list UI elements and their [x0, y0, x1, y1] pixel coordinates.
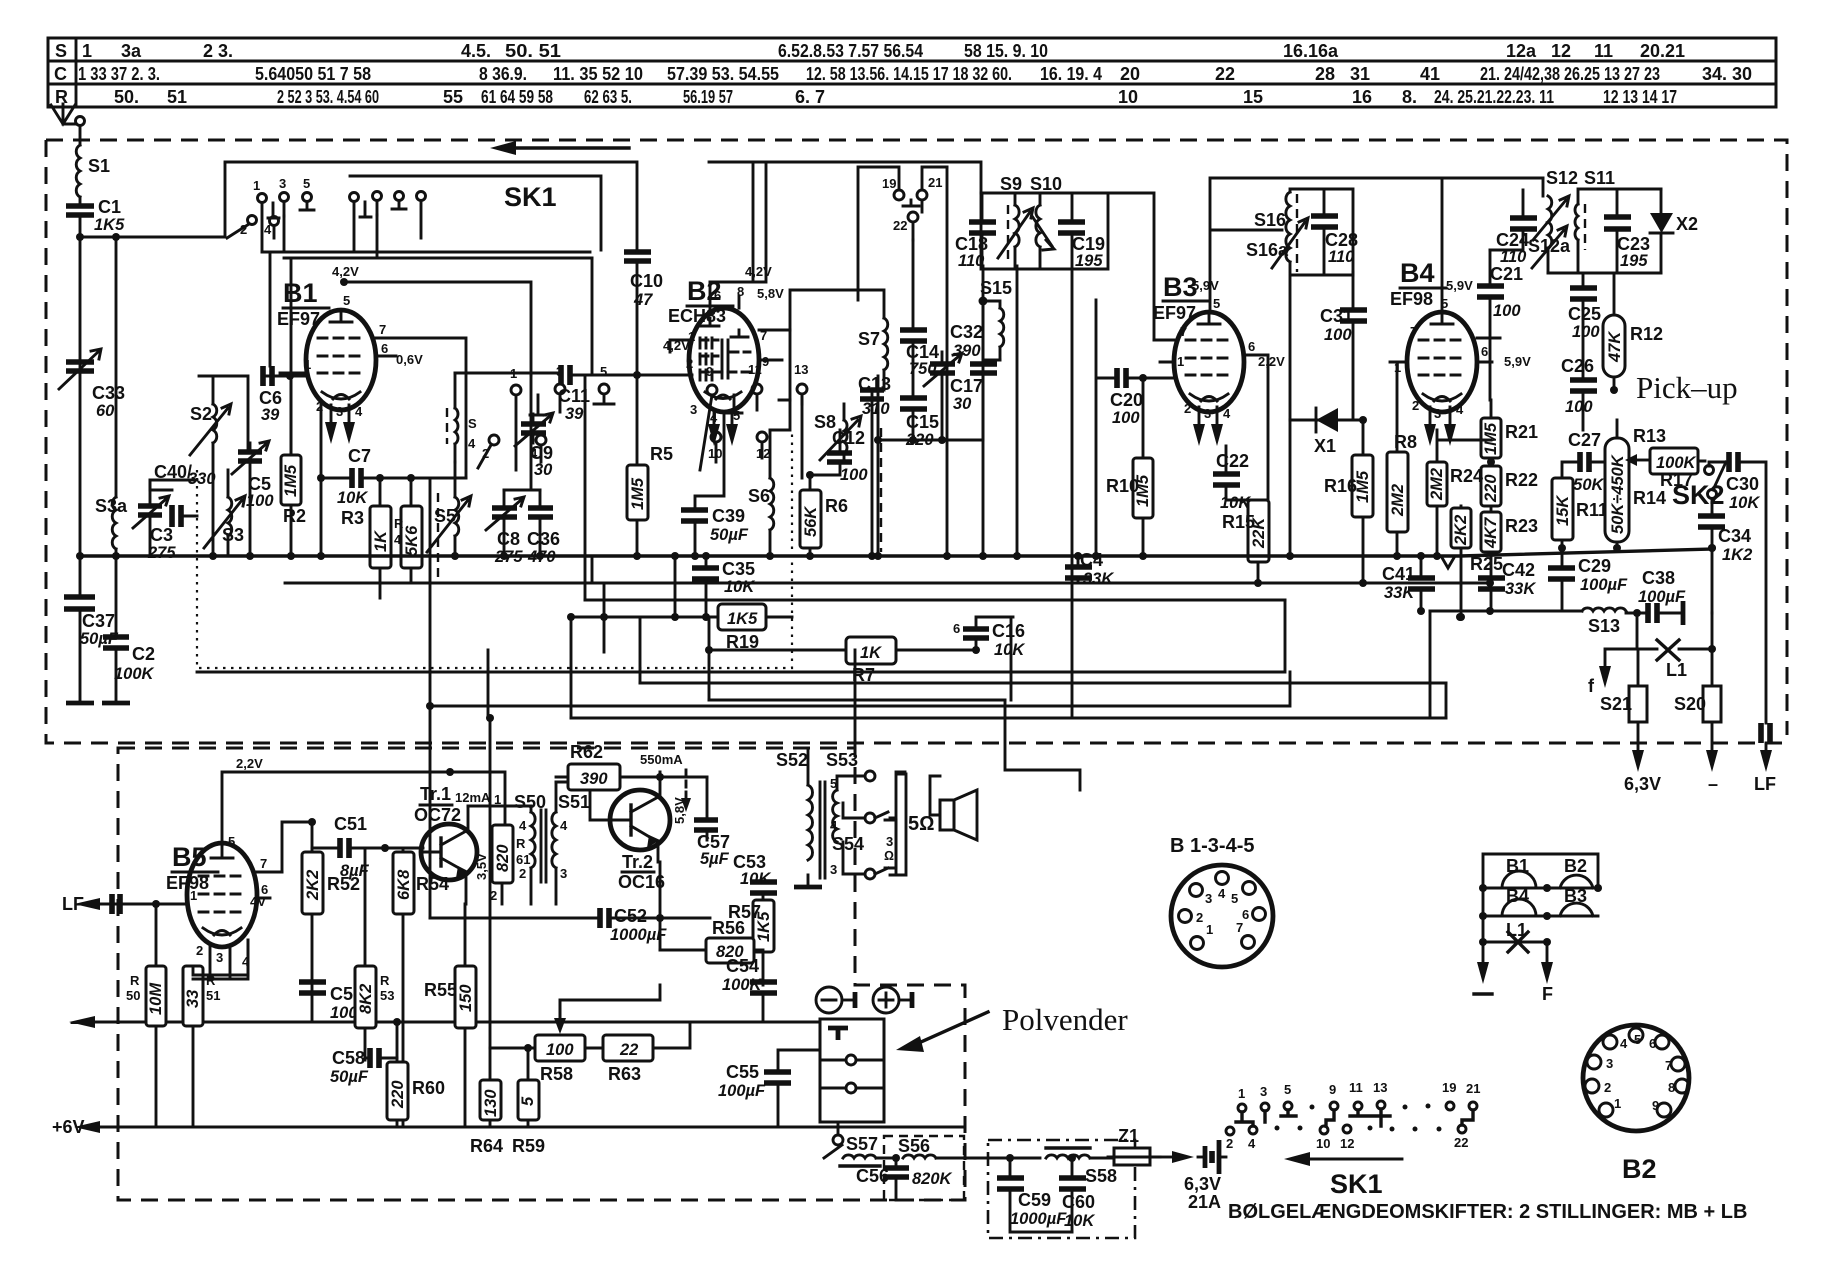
wire B2 top [710, 163, 766, 282]
dashed coil core line S8 [880, 428, 882, 552]
LF section dashed border [118, 748, 965, 1200]
coil S16 S16a [1246, 189, 1353, 420]
ground [66, 701, 94, 706]
svg-text:C4: C4 [1080, 550, 1103, 570]
capacitor C41 [1382, 564, 1435, 602]
svg-text:2M2: 2M2 [1389, 484, 1407, 517]
coil S2 variable [190, 404, 231, 556]
battery cell plus [873, 987, 912, 1013]
svg-text:C: C [54, 64, 67, 84]
svg-text:X1: X1 [1314, 436, 1336, 456]
svg-text:C29: C29 [1578, 556, 1611, 576]
resistor R7 1K [846, 637, 896, 685]
wire B1 anode riser [402, 338, 466, 478]
svg-text:20.21: 20.21 [1640, 41, 1685, 61]
resistor R59 5 [512, 1080, 545, 1156]
svg-text:R22: R22 [1505, 470, 1538, 490]
svg-text:B4: B4 [1506, 886, 1529, 906]
wire [115, 237, 118, 497]
svg-text:Ω: Ω [884, 848, 894, 863]
svg-text:56K: 56K [802, 506, 820, 537]
svg-text:2: 2 [686, 356, 693, 371]
svg-text:C38: C38 [1642, 568, 1675, 588]
svg-text:B2: B2 [1622, 1154, 1657, 1184]
svg-text:2K2: 2K2 [304, 870, 322, 901]
svg-text:C15: C15 [906, 412, 939, 432]
svg-text:10K: 10K [724, 578, 755, 596]
svg-text:5µF: 5µF [700, 850, 730, 868]
capacitor C55 [718, 1062, 791, 1100]
resistor R24 2M2 [1427, 462, 1483, 506]
capacitor C8 variable [486, 497, 524, 566]
svg-text:100: 100 [1493, 302, 1521, 320]
wiper arrow R14 [1637, 459, 1650, 462]
wire local bus [878, 376, 983, 556]
svg-text:9: 9 [762, 354, 769, 369]
svg-text:R62: R62 [570, 742, 603, 762]
svg-text:10K: 10K [337, 489, 368, 507]
svg-text:47K: 47K [1606, 331, 1624, 363]
capacitor C7 [337, 446, 371, 507]
f terminal arrow [1605, 649, 1637, 666]
svg-text:7: 7 [379, 322, 386, 337]
svg-text:C57: C57 [697, 832, 730, 852]
svg-text:f: f [1588, 676, 1595, 696]
svg-text:5: 5 [343, 293, 350, 308]
svg-text:6,3V: 6,3V [1624, 774, 1661, 794]
svg-text:C56: C56 [856, 1166, 889, 1186]
svg-text:4,2V: 4,2V [745, 264, 772, 279]
resistor R8 2M2 [1387, 432, 1417, 532]
svg-text:50µF: 50µF [330, 1068, 369, 1086]
capacitor C56 [856, 1166, 909, 1186]
svg-text:S8: S8 [814, 412, 836, 432]
inductor L1 ferrite [1657, 640, 1687, 680]
svg-text:22: 22 [1454, 1135, 1468, 1150]
svg-text:2,2V: 2,2V [1258, 354, 1285, 369]
svg-text:2: 2 [1412, 398, 1419, 413]
svg-text:11. 35 52 10: 11. 35 52 10 [553, 64, 643, 84]
svg-text:S13: S13 [1588, 616, 1620, 636]
svg-text:550mA: 550mA [640, 752, 683, 767]
coil S6 [748, 430, 774, 556]
coil S8 variable [814, 412, 861, 460]
capacitor C30 [1726, 452, 1760, 512]
capacitor C2 [103, 637, 155, 683]
svg-text:3: 3 [1204, 406, 1211, 421]
svg-text:8.: 8. [1402, 87, 1417, 107]
svg-text:100: 100 [840, 466, 868, 484]
svg-text:2: 2 [1196, 910, 1203, 925]
svg-text:30: 30 [953, 395, 972, 413]
filament wiring diagram [1474, 854, 1602, 1004]
tube B5 EF98 [160, 834, 282, 975]
svg-text:S21: S21 [1600, 694, 1632, 714]
svg-text:C23: C23 [1617, 234, 1650, 254]
svg-text:S3a: S3a [95, 496, 128, 516]
resistor R50 10M [126, 966, 166, 1026]
svg-text:8K2: 8K2 [357, 984, 375, 1014]
capacitor C38 [1638, 568, 1686, 625]
svg-text:S3: S3 [222, 525, 244, 545]
wire [115, 556, 118, 701]
resistor R57 1K5 [728, 900, 774, 952]
svg-text:50K÷450K: 50K÷450K [1609, 454, 1627, 534]
svg-text:22: 22 [893, 218, 907, 233]
svg-text:S51: S51 [558, 792, 590, 812]
svg-text:50: 50 [126, 988, 140, 1003]
svg-text:820: 820 [494, 844, 512, 872]
svg-text:6,3V: 6,3V [1184, 1174, 1221, 1194]
resistor R19 1K5 [718, 604, 766, 652]
svg-text:+6V: +6V [52, 1117, 85, 1137]
svg-text:C3: C3 [150, 525, 173, 545]
svg-text:21A: 21A [1188, 1192, 1221, 1212]
svg-text:5: 5 [1284, 1082, 1291, 1097]
svg-text:S11: S11 [1584, 168, 1615, 188]
svg-text:B3: B3 [1564, 886, 1587, 906]
svg-text:B 1-3-4-5: B 1-3-4-5 [1170, 835, 1254, 857]
svg-text:2: 2 [1226, 1136, 1233, 1151]
resistor R2 1M5 [281, 455, 306, 526]
direction arrow [516, 146, 629, 149]
capacitor C36 [527, 508, 560, 566]
coupling cap on LF line [112, 894, 120, 914]
resistor R56 820 [706, 918, 754, 963]
svg-text:C33: C33 [92, 383, 125, 403]
svg-text:5,8V: 5,8V [757, 286, 784, 301]
svg-text:4: 4 [1248, 1136, 1256, 1151]
svg-text:34. 30: 34. 30 [1702, 64, 1752, 84]
svg-text:R16: R16 [1324, 476, 1357, 496]
svg-text:S53: S53 [826, 750, 858, 770]
svg-text:C26: C26 [1561, 356, 1594, 376]
potentiometer R58 100 [535, 1035, 585, 1084]
table row C numbers [78, 64, 1752, 84]
capacitor C14 [900, 330, 939, 378]
svg-text:39: 39 [261, 406, 280, 424]
wire [79, 197, 82, 203]
capacitor C51 [334, 814, 370, 880]
svg-text:7: 7 [1236, 920, 1243, 935]
svg-text:R13: R13 [1633, 426, 1666, 446]
resistor R3 1K [341, 506, 391, 568]
svg-text:F: F [1542, 984, 1553, 1004]
svg-text:1: 1 [190, 888, 197, 903]
svg-text:5.64050 51 7 58: 5.64050 51 7 58 [255, 64, 371, 84]
svg-text:SK2: SK2 [1672, 480, 1725, 510]
dashed coil core line S5 [437, 493, 439, 582]
svg-text:S: S [55, 41, 67, 61]
ground [102, 701, 130, 706]
svg-text:R23: R23 [1505, 516, 1538, 536]
svg-text:C41: C41 [1382, 564, 1415, 584]
loudspeaker [940, 790, 977, 840]
svg-text:SK1: SK1 [1330, 1169, 1383, 1199]
svg-text:60: 60 [96, 402, 115, 420]
svg-text:820K: 820K [912, 1170, 953, 1188]
svg-text:C55: C55 [726, 1062, 759, 1082]
capacitor C50 [299, 982, 378, 1022]
svg-text:100: 100 [1324, 326, 1352, 344]
capacitor C23 [1604, 217, 1650, 270]
resistor R64 130 [470, 1080, 503, 1156]
svg-text:C2: C2 [132, 644, 155, 664]
svg-text:1M5: 1M5 [1482, 422, 1500, 455]
SK1 contact strip [1226, 1080, 1480, 1199]
coil S57 [840, 1134, 880, 1166]
svg-text:4: 4 [394, 532, 402, 547]
svg-text:6: 6 [1481, 344, 1488, 359]
svg-text:8: 8 [1668, 1080, 1675, 1095]
svg-text:R11: R11 [1576, 500, 1608, 520]
svg-text:1M5: 1M5 [282, 464, 300, 497]
svg-text:56.19 57: 56.19 57 [683, 87, 733, 107]
svg-text:B1: B1 [283, 278, 318, 308]
svg-text:10K: 10K [740, 870, 771, 888]
svg-text:S58: S58 [1085, 1166, 1117, 1186]
svg-text:4: 4 [560, 818, 568, 833]
svg-text:5,9V: 5,9V [1446, 278, 1473, 293]
svg-text:33: 33 [184, 990, 202, 1008]
svg-text:12 13 14 17: 12 13 14 17 [1603, 87, 1677, 107]
svg-text:5: 5 [1441, 296, 1448, 311]
svg-text:3: 3 [1606, 1056, 1613, 1071]
capacitor C60 [1059, 1178, 1095, 1230]
svg-text:S7: S7 [858, 329, 880, 349]
svg-text:C14: C14 [906, 342, 939, 362]
svg-text:C30: C30 [1726, 474, 1759, 494]
svg-text:B2: B2 [1564, 856, 1587, 876]
capacitor C22 [1213, 451, 1251, 512]
svg-text:C13: C13 [858, 374, 891, 394]
svg-text:LF: LF [1754, 774, 1776, 794]
svg-text:R6: R6 [825, 496, 848, 516]
svg-text:–: – [70, 1012, 80, 1032]
svg-text:1: 1 [1238, 1086, 1245, 1101]
svg-text:1K: 1K [860, 644, 882, 662]
battery cell minus [816, 987, 855, 1013]
svg-text:7: 7 [1665, 1058, 1672, 1073]
svg-text:10K: 10K [1729, 494, 1760, 512]
svg-text:9: 9 [1652, 1098, 1659, 1113]
tube B4 EF98 [1390, 258, 1531, 446]
svg-text:310: 310 [862, 400, 890, 418]
svg-text:195: 195 [1620, 252, 1648, 270]
capacitor C26 [1561, 356, 1597, 416]
svg-text:R64: R64 [470, 1136, 503, 1156]
svg-text:19: 19 [1442, 1080, 1456, 1095]
bus junction dots [76, 552, 1494, 621]
svg-text:6K8: 6K8 [395, 869, 413, 900]
resistor R63 22 [603, 1035, 653, 1084]
diode X1 [1290, 408, 1363, 456]
resistor R4 5K6 [394, 506, 422, 568]
switch SK2 [1672, 462, 1726, 510]
svg-text:R5: R5 [650, 444, 673, 464]
transistor Tr2 OC16 [556, 772, 670, 892]
svg-text:12: 12 [1551, 41, 1571, 61]
svg-text:4,2V: 4,2V [332, 264, 359, 279]
svg-text:55: 55 [443, 87, 463, 107]
svg-text:R: R [394, 516, 404, 531]
svg-text:5,8V: 5,8V [672, 797, 687, 824]
polvender reversing switch [820, 1019, 884, 1145]
svg-text:Tr.1: Tr.1 [420, 784, 451, 804]
svg-text:C20: C20 [1110, 390, 1143, 410]
svg-text:390: 390 [580, 770, 608, 788]
svg-text:S15: S15 [980, 278, 1012, 298]
svg-text:R: R [55, 87, 68, 107]
svg-text:100: 100 [1565, 398, 1593, 416]
svg-text:C7: C7 [348, 446, 371, 466]
capacitor C5 variable [232, 441, 274, 510]
svg-text:16.16a: 16.16a [1283, 41, 1339, 61]
svg-text:31: 31 [1350, 64, 1370, 84]
svg-text:2: 2 [196, 943, 203, 958]
svg-text:0,6V: 0,6V [396, 352, 423, 367]
svg-text:C9: C9 [530, 443, 553, 463]
tube B3 EF97 [1153, 272, 1285, 446]
capacitor C58 [330, 1048, 379, 1086]
svg-text:11: 11 [1594, 41, 1613, 61]
svg-text:–: – [1708, 774, 1718, 794]
svg-text:2: 2 [1604, 1080, 1611, 1095]
tube socket B2 [1583, 1025, 1689, 1184]
svg-text:C53: C53 [733, 852, 766, 872]
svg-text:S: S [468, 416, 477, 431]
wire [947, 167, 1017, 556]
resistor R12 47K [1603, 315, 1663, 377]
svg-text:10M: 10M [147, 982, 165, 1015]
svg-text:2 3.: 2 3. [203, 41, 233, 61]
svg-text:12. 58 13.56. 14.15 17 18: 12. 58 13.56. 14.15 17 18 32 60. [806, 64, 1012, 84]
node [76, 233, 84, 241]
svg-text:61 64 59 58: 61 64 59 58 [481, 87, 553, 107]
resistor R60 220 [387, 1062, 445, 1120]
capacitor C35 [692, 559, 755, 596]
tube B1 EF97 [277, 278, 423, 444]
capacitor C17 variable [924, 353, 983, 413]
svg-text:4: 4 [519, 818, 527, 833]
svg-text:1000µF: 1000µF [1010, 1210, 1067, 1228]
svg-text:39: 39 [565, 405, 584, 423]
resistor R21 1M5 [1481, 418, 1538, 458]
wire 4.2V rail B1 [344, 282, 531, 375]
resistor R61 820 [492, 825, 530, 883]
svg-text:28: 28 [1315, 64, 1335, 84]
svg-text:C5: C5 [248, 474, 271, 494]
svg-text:5: 5 [1213, 296, 1220, 311]
svg-text:4.5.: 4.5. [461, 41, 491, 61]
svg-text:30: 30 [534, 461, 553, 479]
svg-text:R56: R56 [712, 918, 745, 938]
svg-text:4: 4 [1456, 402, 1464, 417]
minus rail arrow [95, 1021, 820, 1024]
svg-text:S20: S20 [1674, 694, 1706, 714]
svg-text:C34: C34 [1718, 526, 1751, 546]
svg-text:53: 53 [380, 988, 394, 1003]
svg-text:100µF: 100µF [718, 1082, 766, 1100]
switch contacts group 9-11-13 [350, 192, 426, 259]
coil S7 [770, 290, 888, 556]
svg-text:C54: C54 [726, 956, 759, 976]
svg-text:R58: R58 [540, 1064, 573, 1084]
svg-text:110: 110 [1328, 248, 1355, 266]
table row S numbers [82, 41, 1685, 61]
svg-text:S12: S12 [1546, 168, 1578, 188]
resistor R15 22K [1222, 500, 1269, 562]
svg-text:3: 3 [1205, 891, 1212, 906]
svg-text:22: 22 [619, 1041, 638, 1059]
svg-text:5: 5 [303, 176, 310, 191]
svg-text:12: 12 [1340, 1136, 1354, 1151]
svg-text:R: R [130, 973, 140, 988]
svg-text:2K2: 2K2 [1452, 515, 1470, 546]
capacitor C9 variable [515, 413, 553, 479]
svg-text:5: 5 [1231, 891, 1238, 906]
capacitor C42 [1478, 560, 1536, 598]
svg-text:7: 7 [260, 856, 267, 871]
capacitor C21 [1477, 264, 1523, 320]
wire grid B1 [263, 375, 306, 378]
capacitor C31 [1320, 306, 1367, 344]
svg-text:1 33 37 2. 3.: 1 33 37 2. 3. [78, 64, 160, 84]
svg-text:41: 41 [1420, 64, 1440, 84]
svg-text:S16: S16 [1254, 210, 1286, 230]
coil S3 variable [204, 470, 245, 556]
resistor R16 1M5 [1324, 455, 1373, 517]
capacitor C3 variable [133, 496, 176, 562]
svg-text:C22: C22 [1216, 451, 1249, 471]
svg-text:2: 2 [1184, 401, 1191, 416]
svg-text:OC16: OC16 [618, 872, 665, 892]
capacitor C10 [624, 252, 663, 309]
transistor Tr1 OC72 [414, 784, 477, 904]
svg-text:S56: S56 [898, 1136, 930, 1156]
svg-text:3,5V: 3,5V [474, 853, 489, 880]
svg-text:S5: S5 [434, 506, 456, 526]
wire [115, 549, 118, 556]
capacitor C52 [600, 906, 667, 944]
svg-text:220: 220 [389, 1080, 407, 1109]
svg-text:C21: C21 [1490, 264, 1523, 284]
transformer S9 S10 [981, 174, 1154, 340]
battery 6.3V [1184, 1140, 1226, 1212]
main bus wires [80, 549, 1713, 556]
S20 scale lamp [1674, 686, 1721, 722]
svg-text:4: 4 [355, 404, 363, 419]
switch contact to S57 [824, 1145, 842, 1158]
svg-text:16: 16 [1352, 87, 1372, 107]
+6V rail arrow [100, 1126, 965, 1129]
svg-text:57.39 53. 54.55: 57.39 53. 54.55 [667, 64, 779, 84]
svg-text:4: 4 [1223, 406, 1231, 421]
wire grid line to B2 [455, 258, 692, 375]
svg-text:C16: C16 [992, 621, 1025, 641]
svg-text:1: 1 [304, 357, 311, 372]
svg-text:5: 5 [600, 364, 607, 379]
capacitor C34 [1698, 516, 1752, 564]
resistor R23 4K7 [1481, 512, 1538, 552]
SK1 main contacts 1-13 [478, 362, 808, 478]
svg-text:R63: R63 [608, 1064, 641, 1084]
svg-text:100: 100 [1112, 409, 1140, 427]
capacitor C24 [1496, 218, 1537, 266]
coil S3a [112, 497, 116, 549]
svg-text:3: 3 [279, 176, 286, 191]
svg-text:C59: C59 [1018, 1190, 1051, 1210]
